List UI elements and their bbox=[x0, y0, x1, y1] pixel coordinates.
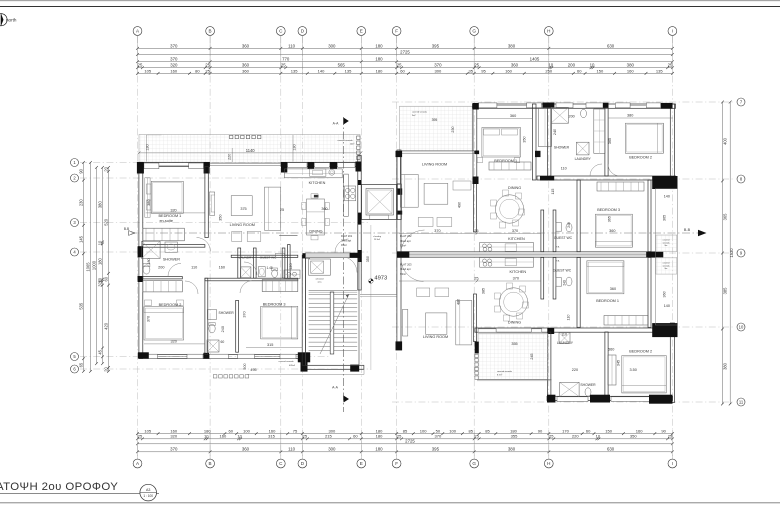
svg-text:covered veranda: covered veranda bbox=[279, 361, 295, 363]
svg-text:BEDROOM 1: BEDROOM 1 bbox=[159, 214, 182, 218]
bed bedroom2 right-top bbox=[625, 123, 663, 153]
svg-text:365: 365 bbox=[663, 215, 667, 221]
svg-text:250: 250 bbox=[545, 68, 553, 73]
svg-text:495: 495 bbox=[250, 368, 256, 372]
svg-text:BEDROOM 3: BEDROOM 3 bbox=[263, 303, 286, 307]
svg-text:10m²: 10m² bbox=[350, 143, 355, 146]
svg-text:360: 360 bbox=[610, 287, 616, 291]
wall right block right top bbox=[670, 104, 674, 189]
svg-text:29.3m²: 29.3m² bbox=[374, 238, 381, 241]
svg-text:565: 565 bbox=[338, 63, 346, 68]
svg-text:85: 85 bbox=[403, 429, 408, 434]
dim extension lines top bbox=[138, 36, 673, 75]
kitchen counter right col left block bbox=[344, 174, 349, 216]
wall bedroom3 right x648 bbox=[648, 180, 651, 252]
armchairs living rt bbox=[418, 218, 433, 227]
svg-text:380: 380 bbox=[147, 200, 151, 206]
dim chain top row2 overall 2725 bbox=[136, 49, 674, 56]
entry door arc flat202 bbox=[401, 230, 425, 250]
sheet bottom rule bbox=[0, 502, 780, 504]
svg-text:370: 370 bbox=[170, 447, 178, 452]
stair flight line bbox=[320, 294, 349, 354]
cooktop flat203 bbox=[483, 259, 487, 263]
svg-text:490: 490 bbox=[458, 202, 462, 208]
svg-text:60: 60 bbox=[400, 68, 405, 73]
guest wc toilet bbox=[272, 270, 278, 278]
svg-text:93m²: 93m² bbox=[400, 272, 406, 276]
column elevator left bottom bbox=[358, 213, 361, 225]
stair stringer bbox=[330, 292, 334, 354]
window box bedroom1 a bbox=[144, 163, 159, 169]
party wall right block bbox=[397, 252, 663, 258]
shower stall right top bbox=[551, 107, 569, 123]
svg-text:140: 140 bbox=[664, 304, 670, 308]
svg-text:480: 480 bbox=[456, 299, 460, 305]
svg-text:BEDROOM 2: BEDROOM 2 bbox=[629, 155, 652, 159]
wall bedroom1-top left bbox=[473, 104, 477, 180]
svg-text:B-B: B-B bbox=[124, 227, 129, 231]
svg-text:H: H bbox=[547, 461, 550, 466]
svg-text:10: 10 bbox=[739, 325, 744, 330]
svg-text:E: E bbox=[360, 461, 363, 466]
column top pier4 bbox=[330, 162, 337, 169]
svg-text:220: 220 bbox=[572, 368, 578, 372]
svg-text:north: north bbox=[6, 18, 17, 23]
svg-text:en-suite: en-suite bbox=[159, 219, 173, 223]
svg-text:630: 630 bbox=[607, 43, 615, 48]
dim line 370-25 flat203 bbox=[399, 280, 541, 282]
bed bedroom2 bbox=[144, 307, 184, 340]
svg-text:365: 365 bbox=[723, 213, 728, 221]
svg-text:BEDROOM 1: BEDROOM 1 bbox=[596, 299, 619, 303]
svg-text:180: 180 bbox=[376, 68, 384, 73]
column core wall mid bbox=[358, 250, 362, 262]
svg-text:385: 385 bbox=[723, 287, 728, 295]
wall living/laundry band top bbox=[231, 255, 298, 257]
svg-text:85: 85 bbox=[485, 429, 490, 434]
svg-text:350: 350 bbox=[523, 136, 527, 142]
wall laundry left bbox=[238, 248, 241, 278]
coffee table living right top bbox=[424, 183, 448, 204]
column stair top-left bbox=[303, 253, 311, 258]
bed bedroom3 right bbox=[595, 214, 632, 247]
wall below top bedrooms right block bbox=[537, 176, 676, 180]
door arcs right top bbox=[590, 164, 602, 176]
horizontal grid lines 1-6 bbox=[80, 163, 368, 370]
svg-text:135: 135 bbox=[291, 68, 299, 73]
laundry machine bbox=[241, 267, 251, 278]
svg-text:380: 380 bbox=[627, 63, 635, 68]
svg-text:1000: 1000 bbox=[91, 260, 96, 270]
svg-text:240: 240 bbox=[562, 280, 566, 286]
svg-text:GUEST WC: GUEST WC bbox=[553, 269, 572, 273]
wall bedroom3 right / stairs left bbox=[302, 255, 305, 365]
left dim chain sub bbox=[97, 166, 104, 365]
oven flat202 bbox=[505, 244, 516, 251]
svg-text:370: 370 bbox=[512, 229, 518, 233]
svg-text:380: 380 bbox=[723, 362, 728, 370]
sliding door living top bbox=[210, 162, 281, 164]
svg-text:ΚΑΤΟΨΗ 2ου ΟΡΟΦΟΥ: ΚΑΤΟΨΗ 2ου ΟΡΟΦΟΥ bbox=[0, 481, 118, 493]
closet bedroom1 right-top bbox=[489, 162, 531, 170]
svg-text:covered veranda: covered veranda bbox=[497, 371, 513, 373]
svg-text:3.50: 3.50 bbox=[630, 368, 637, 372]
svg-text:100: 100 bbox=[449, 429, 457, 434]
laundry machine right top bbox=[576, 142, 589, 155]
svg-text:60: 60 bbox=[586, 429, 591, 434]
wall laundry bottom x604 bbox=[605, 332, 608, 396]
cooktop flat202 bbox=[483, 244, 487, 248]
svg-text:KITCHEN: KITCHEN bbox=[309, 181, 326, 185]
svg-text:FLAT 201: FLAT 201 bbox=[341, 234, 353, 238]
stair door arc bbox=[341, 257, 357, 273]
column veranda bl left bbox=[475, 342, 479, 354]
svg-text:420: 420 bbox=[103, 322, 108, 330]
elevator door gap bbox=[370, 215, 389, 220]
wall mid vertical x547 bbox=[548, 104, 551, 176]
sink ensuite bbox=[165, 242, 177, 252]
dim line 370-25 living rt bbox=[399, 232, 541, 234]
veranda right side outline bbox=[655, 189, 677, 325]
dim chain bottom row1 bbox=[136, 429, 674, 436]
wall ensuite/corridor bottom bbox=[143, 277, 183, 279]
column bottom left bbox=[547, 395, 555, 403]
svg-text:230: 230 bbox=[78, 199, 83, 207]
svg-text:140: 140 bbox=[664, 194, 670, 198]
wc ensuite bbox=[143, 265, 150, 274]
dim line 360 br1 top bbox=[477, 118, 532, 120]
door arc bedroom2 entry bbox=[185, 281, 198, 294]
svg-text:180: 180 bbox=[375, 57, 383, 62]
svg-text:395: 395 bbox=[432, 447, 440, 452]
kitchen counters top left block bbox=[284, 169, 342, 178]
wall bedroom1 left bottom bbox=[577, 257, 580, 327]
wall left block bottom bbox=[139, 355, 306, 359]
party wall black end left bbox=[397, 251, 409, 257]
elevator shaft bbox=[362, 185, 397, 220]
section A-A top marker bbox=[344, 118, 349, 125]
right dim chain overall 1530 bbox=[729, 101, 734, 406]
svg-text:veranda: veranda bbox=[663, 264, 671, 267]
svg-text:320: 320 bbox=[97, 279, 102, 287]
svg-text:E: E bbox=[360, 29, 363, 34]
svg-text:370: 370 bbox=[434, 229, 440, 233]
svg-text:SHOWER: SHOWER bbox=[580, 383, 596, 387]
section A-A bottom marker bbox=[344, 396, 350, 403]
svg-text:200: 200 bbox=[569, 115, 575, 119]
svg-text:T.B.: T.B. bbox=[556, 247, 560, 249]
svg-text:60: 60 bbox=[229, 429, 234, 434]
svg-text:360: 360 bbox=[609, 229, 615, 233]
column bottom pier a bbox=[590, 395, 610, 403]
section line A-A vertical bbox=[343, 117, 345, 412]
svg-text:200: 200 bbox=[158, 266, 164, 270]
dim line 320 bedroom2 bbox=[144, 343, 205, 345]
column A1 bbox=[137, 162, 144, 174]
svg-text:BEDROOM 2: BEDROOM 2 bbox=[159, 303, 182, 307]
wall kitchen/flat divider east bbox=[288, 245, 291, 279]
svg-text:1140: 1140 bbox=[246, 148, 256, 153]
tv unit living right bottom bbox=[403, 309, 408, 336]
svg-text:380: 380 bbox=[508, 43, 516, 48]
svg-text:395: 395 bbox=[432, 43, 440, 48]
stair top wall gray band bbox=[306, 253, 350, 258]
dim chain bottom axis row bbox=[136, 447, 674, 454]
svg-text:10: 10 bbox=[237, 434, 242, 439]
column party wall right bbox=[646, 252, 663, 258]
entry door arc flat201 bbox=[335, 239, 349, 253]
svg-text:3bed apt: 3bed apt bbox=[400, 267, 411, 271]
svg-text:370: 370 bbox=[513, 277, 519, 281]
svg-text:320: 320 bbox=[171, 340, 177, 344]
svg-text:180: 180 bbox=[375, 43, 383, 48]
svg-text:G: G bbox=[472, 461, 476, 466]
svg-text:200: 200 bbox=[568, 63, 576, 68]
side tables living bbox=[232, 232, 242, 242]
svg-text:560: 560 bbox=[608, 348, 614, 352]
svg-text:360: 360 bbox=[242, 447, 250, 452]
left dim chain main axis bbox=[78, 161, 85, 373]
svg-text:105: 105 bbox=[144, 429, 152, 434]
column left wall living top bbox=[396, 151, 403, 157]
window box kitchen b bbox=[315, 163, 330, 168]
svg-text:145: 145 bbox=[78, 235, 83, 243]
svg-text:FLAT 203: FLAT 203 bbox=[400, 263, 412, 267]
svg-text:covered veranda: covered veranda bbox=[338, 140, 354, 142]
svg-text:LIVING ROOM: LIVING ROOM bbox=[422, 163, 447, 167]
wall left block top east part bbox=[281, 162, 361, 166]
closet bedroom2 bbox=[143, 281, 183, 292]
wall dining left top bbox=[474, 180, 477, 232]
guestwc flat203 fixtures bbox=[566, 277, 572, 286]
wall shower mid right bbox=[236, 300, 239, 352]
right dim chain axis bbox=[721, 101, 728, 406]
wall right block left (living) bbox=[397, 150, 401, 347]
svg-text:360: 360 bbox=[510, 114, 516, 118]
dim line 380 br2 top bbox=[608, 117, 673, 119]
laundry machine flat203 bbox=[559, 333, 570, 344]
column bottom left corner bbox=[138, 352, 149, 358]
wall laundry/guestwc divider bbox=[253, 248, 256, 278]
svg-text:SHOWER: SHOWER bbox=[218, 311, 234, 315]
closet bedroom3 right bbox=[597, 182, 644, 191]
dining chairs round top bbox=[491, 200, 497, 206]
wall bottom mid x547 bbox=[548, 332, 551, 396]
svg-text:FLAT 202: FLAT 202 bbox=[400, 234, 412, 238]
svg-text:245: 245 bbox=[530, 353, 534, 359]
column left mid bbox=[138, 246, 143, 257]
counter piece kitchen west bbox=[276, 253, 285, 257]
svg-text:25: 25 bbox=[474, 277, 478, 281]
dim chain bottom row2 bbox=[136, 434, 674, 441]
svg-text:35: 35 bbox=[469, 68, 474, 73]
wall bedroom2 right / shower left bbox=[205, 278, 208, 354]
svg-text:B: B bbox=[209, 29, 212, 34]
svg-text:90: 90 bbox=[661, 429, 666, 434]
svg-text:130: 130 bbox=[146, 144, 150, 150]
svg-text:BEDROOM 2: BEDROOM 2 bbox=[629, 349, 652, 353]
svg-text:100: 100 bbox=[243, 429, 251, 434]
wall bedroom1 right bbox=[205, 167, 208, 238]
left dim chain 1000 bbox=[91, 166, 98, 365]
dim vline 130 a bbox=[146, 134, 161, 136]
stair enclosure bbox=[306, 255, 360, 365]
guest wc counter bbox=[284, 270, 300, 279]
fan coil box bbox=[314, 195, 319, 198]
svg-text:covered veranda: covered veranda bbox=[412, 112, 428, 114]
svg-text:160: 160 bbox=[505, 68, 513, 73]
svg-text:LAUNDRY: LAUNDRY bbox=[575, 157, 592, 161]
svg-text:160: 160 bbox=[170, 68, 178, 73]
svg-text:140: 140 bbox=[318, 68, 326, 73]
column top pier2 bbox=[281, 162, 287, 173]
wall elevator right side bbox=[397, 184, 401, 220]
kitchen counters flat203 bbox=[480, 257, 534, 267]
wall right block top bbox=[473, 104, 676, 108]
north symbol bbox=[0, 14, 17, 27]
svg-text:365: 365 bbox=[608, 138, 612, 144]
svg-text:370: 370 bbox=[170, 43, 178, 48]
svg-text:85: 85 bbox=[469, 429, 474, 434]
svg-text:370: 370 bbox=[170, 57, 178, 62]
svg-text:370: 370 bbox=[243, 311, 247, 317]
pergola dashes row bbox=[213, 375, 248, 378]
wall bedroom3 left top bbox=[577, 180, 580, 252]
veranda right hatch top bbox=[656, 235, 677, 252]
svg-text:315: 315 bbox=[268, 434, 276, 439]
svg-text:10: 10 bbox=[548, 63, 553, 68]
svg-text:6.85m²: 6.85m² bbox=[289, 364, 296, 367]
dim line 1140 veranda bbox=[139, 152, 361, 154]
wall corridor right of core top bbox=[397, 156, 401, 185]
wall bedrooms2-3 top bbox=[205, 278, 298, 281]
sofa living room left bbox=[265, 187, 281, 230]
dim extension lines bottom bbox=[138, 430, 673, 459]
svg-text:4973: 4973 bbox=[374, 276, 387, 282]
svg-text:95: 95 bbox=[481, 68, 486, 73]
svg-text:LAUNDRY: LAUNDRY bbox=[239, 256, 254, 260]
window box bedroom1 b bbox=[189, 163, 204, 169]
wall left block left side bbox=[139, 162, 143, 358]
grid bubbles top A-I bbox=[133, 27, 677, 36]
wall right block right bottom bbox=[670, 323, 674, 403]
column stair bottom left bbox=[301, 358, 308, 372]
window box kitchen c bbox=[338, 163, 356, 168]
svg-text:11: 11 bbox=[739, 400, 744, 405]
svg-text:380: 380 bbox=[508, 447, 516, 452]
column bottom mid bbox=[203, 353, 209, 359]
svg-text:A-A: A-A bbox=[332, 386, 338, 390]
svg-text:93m²: 93m² bbox=[400, 243, 406, 247]
svg-text:60: 60 bbox=[103, 276, 108, 281]
svg-text:320: 320 bbox=[170, 434, 178, 439]
svg-text:25: 25 bbox=[474, 434, 479, 439]
svg-text:A-A: A-A bbox=[333, 122, 339, 126]
svg-text:25: 25 bbox=[549, 434, 554, 439]
vertical grid lines A-I bbox=[138, 36, 673, 458]
sheet header rule bbox=[0, 6, 780, 8]
wall bedroom1-top right / kitchen col bbox=[532, 104, 536, 180]
window sill right top bbox=[497, 104, 527, 106]
column top pier3 bbox=[308, 162, 315, 169]
wall core right side bbox=[358, 156, 361, 291]
svg-text:345: 345 bbox=[617, 360, 621, 366]
sink shower mid bbox=[207, 309, 216, 319]
svg-text:630: 630 bbox=[607, 447, 615, 452]
sofa living right top bbox=[400, 175, 418, 208]
svg-text:370: 370 bbox=[146, 316, 150, 322]
scale stamp A3 1:100 bbox=[140, 484, 157, 501]
wall laundry right x604 bbox=[605, 104, 608, 176]
shower stall flat203 bbox=[560, 382, 580, 396]
svg-text:GUEST WC: GUEST WC bbox=[260, 256, 277, 260]
wall right block bottom bbox=[547, 396, 673, 400]
svg-text:G: G bbox=[472, 29, 476, 34]
svg-text:120: 120 bbox=[289, 263, 293, 269]
svg-text:320: 320 bbox=[170, 209, 176, 213]
kitchen col counters right block top bbox=[538, 108, 551, 147]
sheet top edge line bbox=[0, 0, 780, 2]
column middle wall left seg bbox=[540, 176, 554, 181]
svg-text:25: 25 bbox=[397, 63, 402, 68]
svg-text:1.45: 1.45 bbox=[266, 266, 272, 270]
svg-text:I: I bbox=[672, 29, 673, 34]
bed bedroom1 right-bottom bbox=[587, 261, 624, 294]
svg-text:220: 220 bbox=[228, 154, 232, 160]
svg-text:60: 60 bbox=[577, 68, 582, 73]
svg-text:75: 75 bbox=[293, 429, 298, 434]
column top right corner bbox=[661, 103, 673, 109]
title ΚΑΤΟΨΗ 2ου ΟΡΟΦΟΥ bbox=[0, 481, 159, 501]
column bottom right corner bbox=[649, 395, 673, 404]
svg-text:355: 355 bbox=[511, 434, 519, 439]
door arc corridor2 bbox=[244, 262, 257, 275]
grid bubbles bottom A-I bbox=[133, 459, 677, 468]
column elevator left top bbox=[358, 180, 361, 185]
svg-text:400: 400 bbox=[723, 137, 728, 145]
column top right bbox=[356, 162, 362, 172]
svg-text:60: 60 bbox=[221, 340, 225, 344]
guest wc sink bbox=[258, 267, 265, 277]
column left low bbox=[138, 276, 143, 282]
entry door arc flat203 bbox=[401, 259, 424, 282]
svg-text:LIVING ROOM: LIVING ROOM bbox=[423, 335, 448, 339]
section line B-B horizontal bbox=[131, 232, 700, 234]
svg-text:240: 240 bbox=[221, 326, 225, 332]
section B-B left marker bbox=[129, 231, 136, 236]
svg-text:I: I bbox=[672, 461, 673, 466]
svg-text:135: 135 bbox=[656, 68, 664, 73]
dim line 320 bedroom1 bbox=[146, 212, 205, 214]
column left wall living bot bbox=[396, 341, 403, 350]
svg-text:25: 25 bbox=[281, 63, 286, 68]
closet bedroom1 right-bottom bbox=[604, 316, 648, 326]
svg-text:160: 160 bbox=[636, 429, 644, 434]
svg-text:350: 350 bbox=[630, 434, 638, 439]
svg-text:20: 20 bbox=[103, 366, 108, 371]
svg-text:25: 25 bbox=[303, 434, 308, 439]
svg-text:25: 25 bbox=[205, 68, 210, 73]
svg-text:160: 160 bbox=[219, 266, 225, 270]
svg-text:KITCHEN: KITCHEN bbox=[508, 237, 525, 241]
svg-text:770: 770 bbox=[282, 57, 290, 62]
svg-text:SHOWER: SHOWER bbox=[554, 146, 570, 150]
svg-text:360: 360 bbox=[511, 63, 519, 68]
svg-text:110: 110 bbox=[288, 43, 296, 48]
column right wall mid2 bbox=[652, 323, 677, 337]
svg-text:1 : 100: 1 : 100 bbox=[143, 494, 153, 498]
svg-text:2725: 2725 bbox=[400, 49, 410, 54]
